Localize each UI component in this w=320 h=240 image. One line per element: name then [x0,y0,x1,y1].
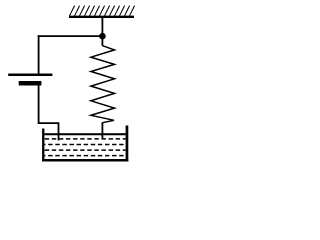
battery B1: short thick plate (-) [19,81,42,86]
spring (coil) [91,46,115,123]
tank right wall [126,126,129,162]
ceiling hatching [70,6,135,16]
liquid: dashed water hatching [44,139,125,156]
battery B1: long thin plate (+) [8,73,52,76]
wire: left vertical down to battery + plate [38,35,40,73]
wire: node to left branch (horizontal) [38,35,103,37]
node: junction dot [99,33,106,40]
wire: spring lower end into liquid [101,122,103,139]
ceiling (fixed support) [69,16,134,18]
tank bottom [42,159,128,162]
tank left wall [42,129,44,162]
wire: ceiling to spring top (vertical, through node) [101,18,103,46]
liquid surface line [44,133,125,135]
wire: battery - down with jog to electrode in tank [39,85,59,140]
